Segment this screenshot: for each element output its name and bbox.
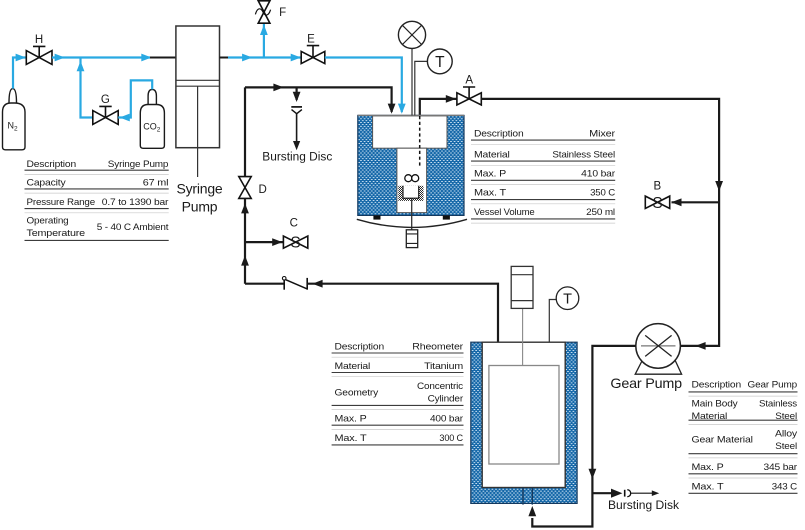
svg-text:Steel: Steel xyxy=(775,441,797,451)
svg-text:Bursting Disc: Bursting Disc xyxy=(262,152,332,164)
svg-text:D: D xyxy=(259,184,267,196)
temperature indicator T1 connector xyxy=(415,61,428,115)
svg-text:350 C: 350 C xyxy=(590,188,615,198)
svg-text:Max. P: Max. P xyxy=(474,169,506,179)
table rheometer xyxy=(335,342,464,444)
valve G xyxy=(93,106,118,124)
flow arrow right after valve H xyxy=(55,54,65,62)
flow arrow down to bursting disc 1 xyxy=(293,92,301,102)
syringe pump body xyxy=(176,26,220,177)
svg-text:Concentric: Concentric xyxy=(417,381,464,391)
valve F relief xyxy=(255,1,270,23)
valve C xyxy=(283,235,307,252)
bursting disc 1 symbol xyxy=(291,107,302,114)
bursting disk 2 symbol xyxy=(625,490,660,497)
valve D xyxy=(239,177,251,199)
svg-text:Steel: Steel xyxy=(775,411,797,421)
flow arrow right before valve E xyxy=(291,54,301,62)
svg-text:S: S xyxy=(290,235,300,252)
svg-text:Capacity: Capacity xyxy=(27,177,67,187)
gas cylinder N2 xyxy=(3,89,26,150)
mixer stirrer shaft dashed xyxy=(419,116,421,168)
flow arrow down before bursting disk branch xyxy=(589,469,597,479)
flow arrow right after pump xyxy=(242,54,252,62)
wire branch to valve G (blue) xyxy=(81,58,93,118)
wire below valve D xyxy=(244,198,246,283)
rheometer spindle shaft xyxy=(522,308,524,365)
svg-text:Max. P: Max. P xyxy=(692,462,724,472)
gear pump stand xyxy=(635,359,681,374)
flow arrow right into valve A xyxy=(446,95,456,103)
wire to bursting disc 1 xyxy=(296,87,298,100)
wire pump outlet (black stub) xyxy=(220,57,229,59)
wire valve E to mixer (blue) xyxy=(325,58,402,113)
valve A xyxy=(457,87,481,105)
svg-text:Max. T: Max. T xyxy=(692,482,725,492)
svg-text:Stainless Steel: Stainless Steel xyxy=(552,149,615,159)
wire N2 riser to valve H (blue) xyxy=(13,58,26,89)
svg-text:Rheometer: Rheometer xyxy=(412,342,463,352)
svg-text:H: H xyxy=(35,34,43,46)
svg-text:410 bar: 410 bar xyxy=(581,169,615,179)
wire branch to bursting disk 2 xyxy=(592,492,612,494)
svg-text:Temperature: Temperature xyxy=(27,228,86,238)
table gear pump xyxy=(692,379,798,491)
rheometer inner cylinder xyxy=(489,366,559,465)
wire check valve to rheometer riser xyxy=(307,284,498,343)
svg-text:Gear Material: Gear Material xyxy=(692,435,753,445)
mixer motor circle xyxy=(398,21,425,48)
flow arrow up into valve D xyxy=(241,203,249,213)
svg-text:Description: Description xyxy=(27,159,77,169)
wire bottom return line (black) xyxy=(245,283,284,285)
svg-text:Gear Pump: Gear Pump xyxy=(610,375,682,391)
flow arrow left into valve G xyxy=(120,114,130,122)
flow arrow left after check valve xyxy=(312,280,322,288)
svg-text:Material: Material xyxy=(692,411,728,421)
svg-text:S: S xyxy=(652,195,662,212)
wire branch to valve C xyxy=(245,241,283,243)
svg-text:343 C: 343 C xyxy=(772,482,798,492)
svg-text:Syringe: Syringe xyxy=(176,181,222,197)
svg-text:Description: Description xyxy=(335,342,385,352)
temperature indicator T2 xyxy=(556,287,579,310)
svg-text:Main Body: Main Body xyxy=(692,398,739,408)
mixer feet xyxy=(373,215,380,219)
svg-text:G: G xyxy=(101,94,110,106)
svg-text:A: A xyxy=(465,75,473,87)
svg-text:Description: Description xyxy=(692,379,742,389)
svg-text:T: T xyxy=(563,291,572,307)
svg-text:F: F xyxy=(279,7,286,19)
svg-text:67 ml: 67 ml xyxy=(143,177,169,187)
svg-text:300 C: 300 C xyxy=(439,433,463,443)
svg-text:345 bar: 345 bar xyxy=(764,462,798,472)
flow arrow left into valve B xyxy=(671,198,681,206)
mixer bottom fitting xyxy=(406,230,417,248)
mixer agitator hatched block xyxy=(398,186,423,201)
flow arrow right before pump xyxy=(141,54,151,62)
rheometer vessel body xyxy=(471,342,577,503)
svg-text:Gear Pump: Gear Pump xyxy=(748,379,798,389)
svg-text:Material: Material xyxy=(474,149,510,159)
valve E xyxy=(301,46,325,64)
mixer bottom shaft xyxy=(411,198,413,230)
gas cylinder CO2 xyxy=(140,89,164,148)
flow arrow down into mixer (blue) xyxy=(398,104,406,114)
svg-text:400 bar: 400 bar xyxy=(430,414,463,424)
svg-text:0.7 to 1390 bar: 0.7 to 1390 bar xyxy=(102,197,169,207)
mixer stirrer impeller xyxy=(405,175,419,182)
check valve xyxy=(282,277,307,290)
flow arrow up into valve F xyxy=(260,25,268,35)
svg-text:T: T xyxy=(435,54,445,71)
flow arrow down into mixer (black) xyxy=(388,104,396,114)
table mixer xyxy=(474,129,616,217)
wire branch to valve B xyxy=(672,201,720,203)
svg-text:Pressure Range: Pressure Range xyxy=(27,197,96,207)
flow arrow down on right main xyxy=(715,181,723,191)
mixer vessel body xyxy=(358,115,464,215)
flow arrow up into rheometer bottom xyxy=(528,506,536,516)
svg-text:Max. T: Max. T xyxy=(335,433,368,443)
svg-text:Stainless: Stainless xyxy=(759,398,798,408)
mixer motor shaft line xyxy=(411,49,413,116)
svg-text:Bursting Disk: Bursting Disk xyxy=(608,500,679,512)
mixer cradle stand xyxy=(357,219,467,227)
valve H xyxy=(26,46,52,64)
svg-text:Mixer: Mixer xyxy=(589,129,615,139)
svg-text:Max. T: Max. T xyxy=(474,188,507,198)
svg-text:Geometry: Geometry xyxy=(335,387,379,397)
wire riser to valve F (blue) xyxy=(263,23,265,57)
svg-text:Max. P: Max. P xyxy=(335,414,367,424)
wire mixer to valve A xyxy=(420,99,457,116)
wire recirculation loop top (black) xyxy=(245,87,392,112)
temperature indicator T2 connector xyxy=(549,300,556,343)
flow arrow left into gear pump xyxy=(695,342,705,350)
svg-text:250 ml: 250 ml xyxy=(586,207,615,217)
svg-text:Syringe Pump: Syringe Pump xyxy=(108,159,169,169)
svg-text:E: E xyxy=(307,33,315,45)
flow arrow down (disc 1 vent) xyxy=(293,141,300,150)
svg-text:Vessel Volume: Vessel Volume xyxy=(474,207,535,217)
wire pump to valve E (blue) xyxy=(228,56,301,58)
svg-text:Cylinder: Cylinder xyxy=(428,393,463,403)
flow arrow right into valve C xyxy=(272,238,282,246)
wire bursting disc 1 outlet xyxy=(296,114,298,142)
flow arrow right on loop top xyxy=(273,84,283,92)
rheometer bottom port lines xyxy=(523,488,532,505)
rheometer motor block xyxy=(511,266,533,308)
table syringe pump xyxy=(27,159,169,238)
svg-text:5 - 40 C Ambient: 5 - 40 C Ambient xyxy=(97,222,169,232)
svg-text:Material: Material xyxy=(335,361,371,371)
flow arrow right before valve H xyxy=(16,54,26,62)
svg-text:Description: Description xyxy=(474,129,524,139)
svg-text:Operating: Operating xyxy=(27,215,69,225)
wire gear pump outlet down-left to rheometer bottom xyxy=(532,346,636,527)
valve B xyxy=(645,195,669,212)
wire loop left vertical (black) xyxy=(244,87,246,176)
svg-text:Titanium: Titanium xyxy=(424,361,463,371)
gear pump circle xyxy=(636,324,681,369)
svg-text:C: C xyxy=(290,218,298,230)
flow arrow up into main line xyxy=(77,61,85,71)
wire into pump (black) xyxy=(150,57,176,59)
wire valve A to right main down to gear pump xyxy=(481,99,719,346)
temperature indicator T1 xyxy=(427,49,452,74)
svg-text:B: B xyxy=(653,181,661,193)
svg-text:Alloy: Alloy xyxy=(775,428,798,438)
svg-text:Pump: Pump xyxy=(182,199,218,215)
wire CO2 to valve G (blue) xyxy=(118,80,152,117)
wire valve H to syringe pump (blue) xyxy=(52,56,150,58)
flow arrow up mid xyxy=(241,255,249,265)
flow arrow right to bursting disk 2 xyxy=(611,489,622,498)
